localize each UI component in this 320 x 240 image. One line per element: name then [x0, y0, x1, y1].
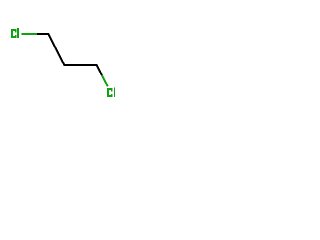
background	[0, 0, 130, 130]
atom label Cl1: C glyph	[11, 29, 16, 38]
bond Cl1-C1 (green half)	[21, 33, 37, 35]
bond C3-Cl2 (green half)	[102, 75, 108, 86]
atom label Cl1: l glyph	[17, 28, 19, 38]
atom label Cl2: C glyph	[107, 88, 113, 97]
atom label Cl2: l glyph	[114, 87, 115, 97]
wire: main carbon chain C1-C2-C3 with black half-bonds	[37, 34, 102, 75]
